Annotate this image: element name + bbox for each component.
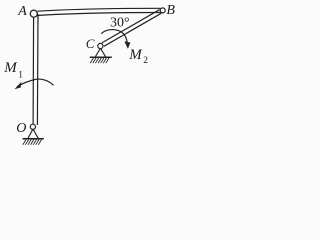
bar OA (vertical member): [33, 14, 38, 125]
pin joint O: [30, 124, 35, 129]
moment arrow M2 (arc across link CB): [101, 30, 127, 44]
support triangle at O: [28, 129, 38, 138]
wire: link CB lower edge: [104, 13, 161, 46]
moment arrow M1 (arc around bar OA): [17, 79, 54, 87]
arrowhead of M2: [124, 41, 130, 48]
wire: bar OA left edge: [32, 14, 35, 125]
wire: link CB upper edge: [102, 10, 159, 43]
ground line at O: [23, 138, 44, 140]
svg-text:O: O: [16, 121, 26, 136]
wire: bar AB top edge: [37, 8, 160, 11]
hatching at C: [90, 58, 109, 63]
svg-text:A: A: [17, 4, 27, 19]
svg-text:30°: 30°: [110, 16, 130, 31]
pin joint B: [160, 8, 165, 13]
bar AB (horizontal member): [37, 8, 160, 15]
ground line at C: [90, 56, 112, 58]
link CB (30 deg member): [102, 10, 161, 47]
svg-text:M: M: [128, 47, 143, 63]
svg-text:M: M: [3, 60, 18, 76]
pin joint A: [30, 10, 37, 17]
svg-text:C: C: [86, 36, 95, 51]
arrowhead of M1: [14, 82, 21, 90]
svg-text:2: 2: [143, 56, 148, 66]
hatching at O: [23, 140, 42, 145]
pin joint C: [98, 43, 103, 48]
svg-text:1: 1: [18, 71, 23, 81]
wire: bar OA right edge: [36, 14, 39, 125]
svg-text:B: B: [166, 3, 175, 18]
support triangle at C: [95, 48, 105, 56]
wire: bar AB bottom edge: [37, 13, 160, 16]
